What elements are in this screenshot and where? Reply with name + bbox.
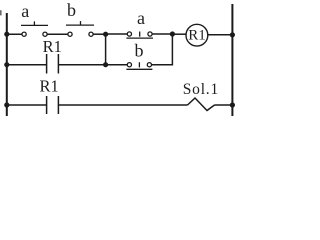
wire rung3: left rail to relay contact R1 xyxy=(7,104,47,106)
wire rung2: junction to NC contact b xyxy=(106,64,130,66)
wire rung2: left rail to relay contact R1 xyxy=(7,64,47,66)
svg-text:b: b xyxy=(135,41,144,61)
right power rail xyxy=(231,4,233,116)
junction dot rung1 / right rail xyxy=(230,32,235,37)
svg-text:a: a xyxy=(137,8,145,28)
junction dot rung1 / left rail xyxy=(4,32,9,37)
wire: vertical branch junction rung1 to rung2 xyxy=(105,34,107,64)
junction dot rung2 / branch xyxy=(103,62,108,67)
wire rung2: NC contact b up to rung1 junction xyxy=(149,34,172,65)
svg-text:a: a xyxy=(21,1,29,21)
wire rung1: contact b to junction xyxy=(91,33,106,35)
wire rung1: coil R1 to right rail xyxy=(208,34,233,36)
wire rung2: relay contact R1 to junction xyxy=(58,64,105,66)
switch contact b (NO, rung 1) xyxy=(66,21,94,36)
switch contact a (NO, rung 1) xyxy=(21,21,48,36)
svg-text:R1: R1 xyxy=(39,77,58,96)
solenoid Sol.1 (zigzag) xyxy=(188,98,215,111)
switch contact b (NC, rung 2 branch) xyxy=(126,62,152,69)
svg-text:R1: R1 xyxy=(188,28,206,44)
wire rung1: contact a to contact b xyxy=(45,33,70,35)
left power rail xyxy=(6,13,8,116)
svg-text:R1: R1 xyxy=(43,37,62,56)
junction dot rung3 / right rail xyxy=(230,102,235,107)
junction dot rung1 / branch split xyxy=(103,32,108,37)
relay contact R1 (rung 2) xyxy=(47,54,59,74)
svg-text:b: b xyxy=(67,0,76,20)
junction dot rung1 / branch rejoin xyxy=(170,31,175,36)
relay contact R1 (rung 3) xyxy=(47,96,59,114)
wire rung3: solenoid to right rail xyxy=(215,104,233,106)
wire rung1: junction to NC contact a xyxy=(106,33,130,35)
relay coil R1 xyxy=(186,24,208,46)
wire rung3: relay contact R1 to solenoid xyxy=(58,104,187,106)
wire rung1: NC contact a to junction xyxy=(150,33,172,35)
wire rung1: junction to coil R1 xyxy=(172,33,186,35)
svg-text:Sol.1: Sol.1 xyxy=(183,81,219,98)
wire rung1: left rail to contact a xyxy=(7,33,24,35)
junction dot rung3 / left rail xyxy=(4,102,9,107)
switch contact a (NC, rung 1 parallel branch) xyxy=(126,32,153,39)
junction dot rung2 / left rail xyxy=(4,62,9,67)
